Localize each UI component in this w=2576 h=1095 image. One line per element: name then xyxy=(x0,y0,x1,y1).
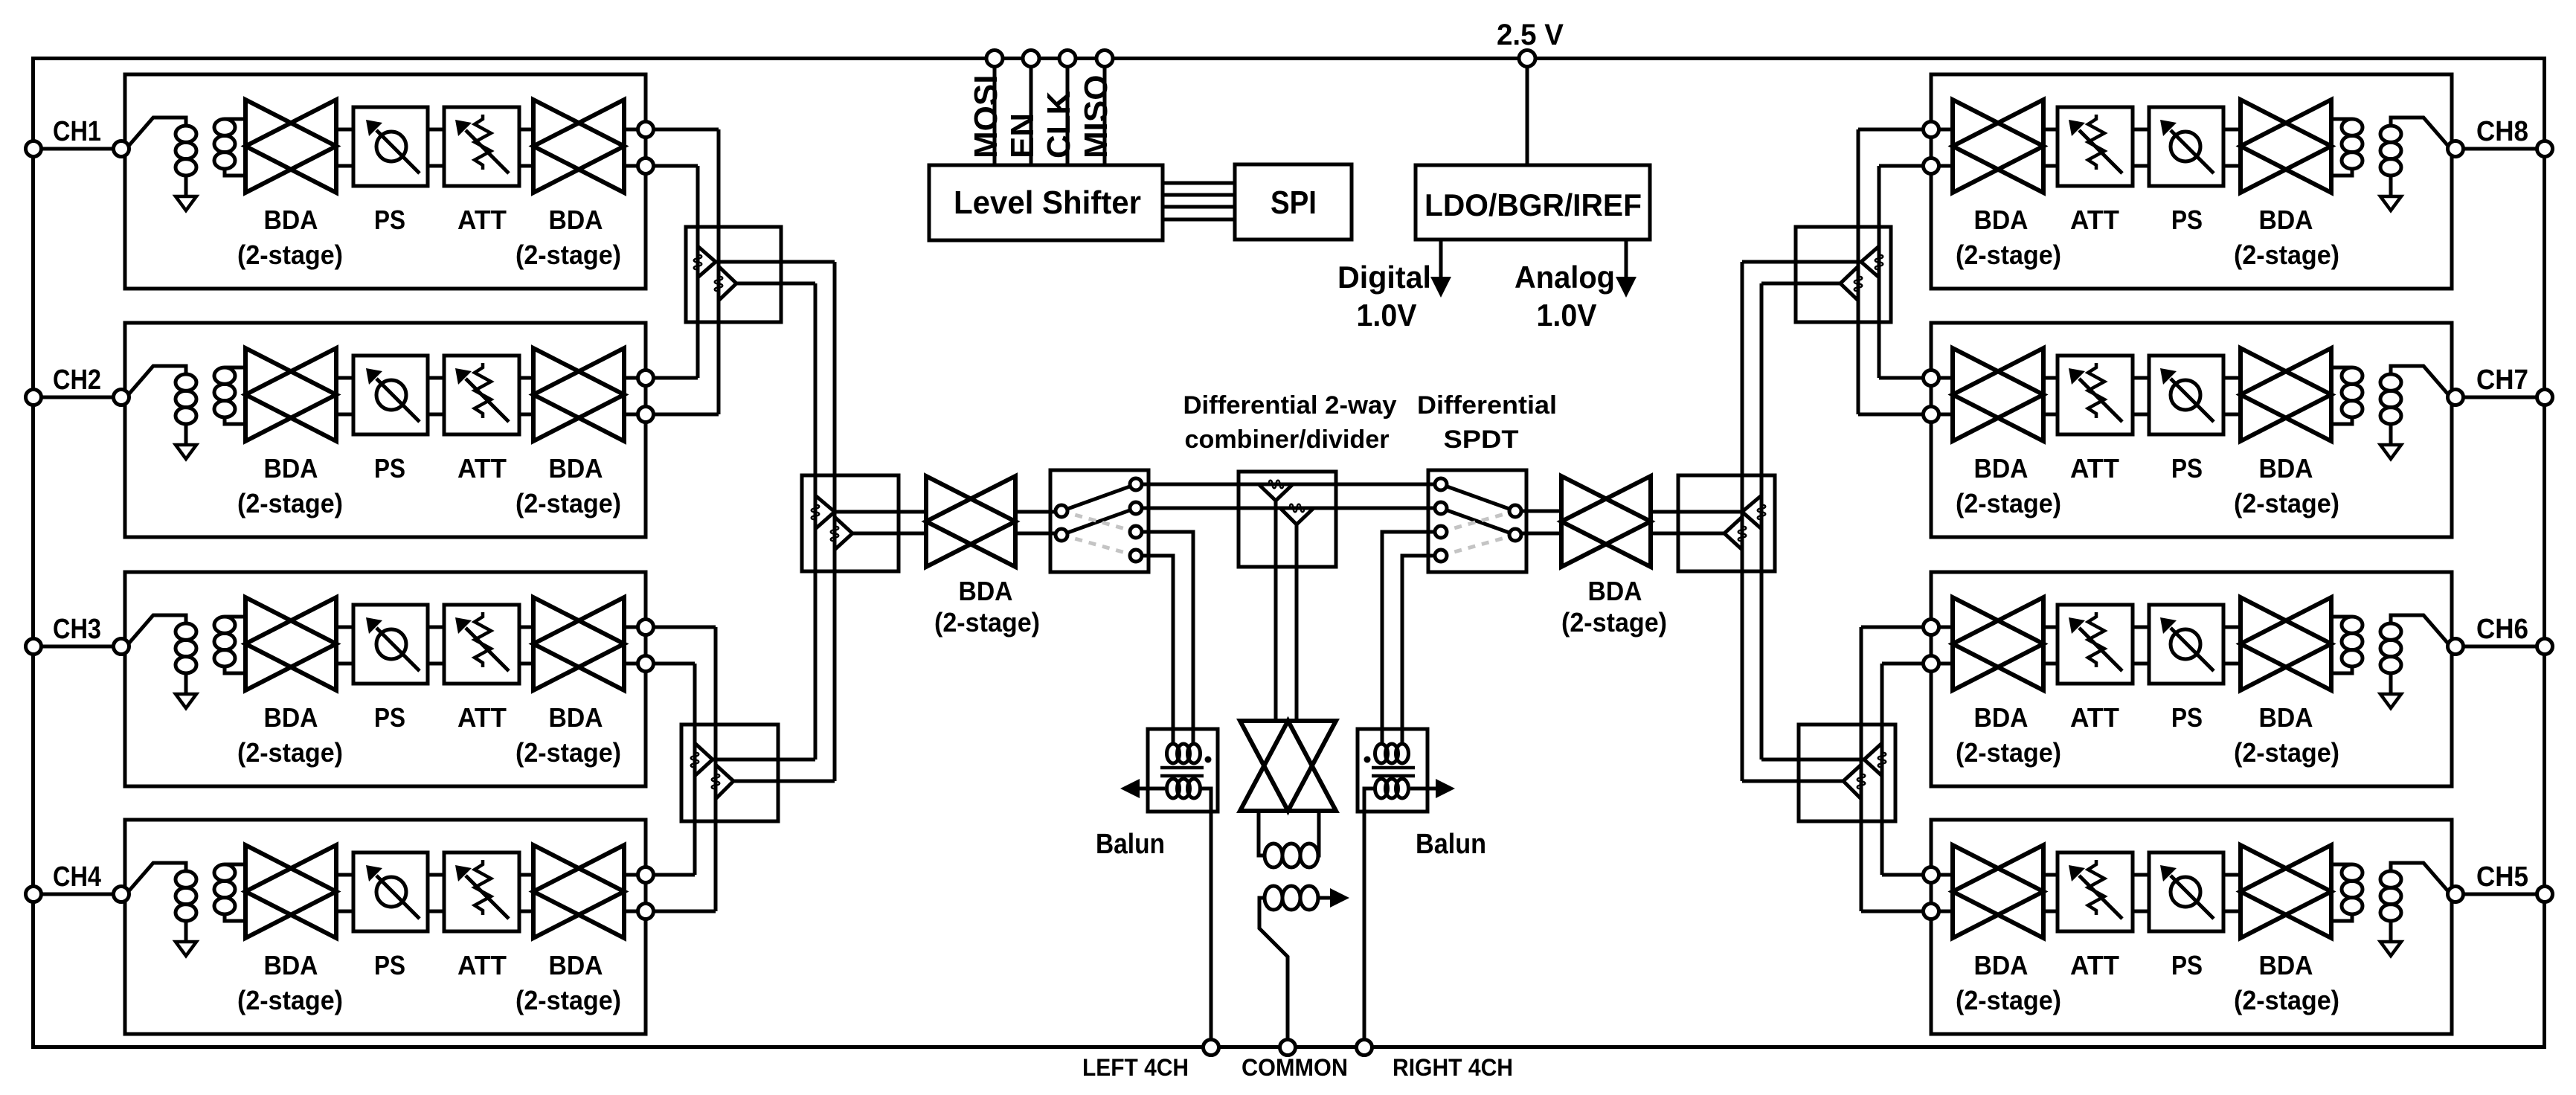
left SPDT pole nodes xyxy=(1056,505,1067,517)
CH5 differential output nodes xyxy=(1924,867,1939,883)
wire CH4 inductor to ground xyxy=(184,921,188,942)
CH3 input port node xyxy=(114,639,129,655)
CH4 differential output nodes xyxy=(638,867,654,883)
CH3 differential output nodes xyxy=(638,620,654,635)
svg-text:CH4: CH4 xyxy=(53,861,101,893)
CH2 differential output nodes xyxy=(638,370,654,386)
CH6/CH5 combiner amp triangle 1 xyxy=(1864,743,1882,776)
wire left BDA to SPDT xyxy=(1015,510,1061,514)
wire BDA1-PS CH6 xyxy=(2223,626,2241,629)
wire ATT-BDA2 CH8 xyxy=(2043,128,2058,132)
right bus vertical net A xyxy=(1760,283,1764,760)
svg-text:BDA: BDA xyxy=(549,453,603,484)
pin node MOSI xyxy=(986,51,1003,67)
svg-text:CH1: CH1 xyxy=(53,116,101,147)
combiner vertical net v4 CH3/CH4 xyxy=(714,627,718,911)
wire CH4 out+ to combiner xyxy=(654,873,695,877)
CH6 differential output nodes xyxy=(1924,620,1939,635)
channel CH3 block xyxy=(125,572,646,786)
BDA 2-stage amplifier 1 CH4 xyxy=(245,845,336,938)
wire PS-ATT CH5 xyxy=(2133,873,2149,877)
wire CH2 out+ to combiner xyxy=(654,376,698,380)
channel CH2 block xyxy=(125,323,646,537)
svg-text:(2-stage): (2-stage) xyxy=(2234,737,2339,768)
svg-text:BDA: BDA xyxy=(959,576,1013,606)
Level Shifter block xyxy=(929,165,1163,240)
svg-text:BDA: BDA xyxy=(2259,205,2313,235)
CH1 input port node xyxy=(114,141,129,157)
right bus vertical net B xyxy=(1741,262,1744,781)
wire ATT-BDA2 CH4 xyxy=(519,873,533,877)
svg-text:(2-stage): (2-stage) xyxy=(1956,488,2061,518)
right 4ch combiner amp triangle 1 xyxy=(1742,495,1761,529)
wire PS-ATT CH2 xyxy=(428,376,444,380)
svg-text:PS: PS xyxy=(374,453,405,484)
wire divider to common BDA 1 xyxy=(1274,501,1278,722)
matching transformer coil CH8 xyxy=(2331,118,2352,121)
svg-text:CH3: CH3 xyxy=(53,614,101,645)
svg-text:PS: PS xyxy=(2171,205,2203,235)
svg-text:(2-stage): (2-stage) xyxy=(515,488,621,518)
wire MISO pin stem xyxy=(1103,66,1107,165)
svg-text:PS: PS xyxy=(374,205,405,235)
left 4ch combiner amp triangle 1 xyxy=(815,495,835,529)
channel CH6 block xyxy=(1931,572,2452,786)
right 4ch combiner box xyxy=(1678,475,1775,571)
svg-text:Balun: Balun xyxy=(1416,829,1486,860)
CH8/CH7 combiner amp triangle 2 xyxy=(1840,266,1858,301)
svg-text:LDO/BGR/IREF: LDO/BGR/IREF xyxy=(1424,187,1642,222)
BDA 2-stage amplifier 2 CH6 xyxy=(1953,597,2043,690)
svg-text:BDA: BDA xyxy=(1974,950,2029,980)
svg-text:Level Shifter: Level Shifter xyxy=(954,184,1141,221)
CH7 input port node xyxy=(2448,390,2464,405)
ground CH5 xyxy=(2380,942,2401,956)
wire PS-ATT CH3 xyxy=(428,626,444,629)
BDA 2-stage amplifier 2 CH2 xyxy=(533,348,624,441)
wire CLK pin stem xyxy=(1066,66,1070,165)
chip pad CH4 xyxy=(26,887,42,902)
CH8/CH7 combiner box xyxy=(1796,227,1891,322)
divider transformer tap 2 xyxy=(1280,508,1314,524)
wire bowtie to transformer right xyxy=(1318,811,1319,855)
right 4ch combiner amp triangle 2 xyxy=(1724,517,1742,550)
RIGHT 4CH pad xyxy=(1357,1040,1372,1056)
wire right SPDT to balun in1 xyxy=(1382,532,1435,745)
wire BDA1-PS CH7 xyxy=(2223,376,2241,380)
left SPDT throw wire 1 xyxy=(1061,484,1136,511)
wire MOSI pin stem xyxy=(993,66,997,165)
left balun polarity dot xyxy=(1205,757,1212,763)
channel CH4 block xyxy=(125,820,646,1034)
ground CH7 xyxy=(2380,445,2401,459)
svg-text:BDA: BDA xyxy=(264,702,318,733)
CH5 input port node xyxy=(2448,887,2464,902)
svg-text:CH8: CH8 xyxy=(2476,116,2528,147)
chip pad CH6 xyxy=(2537,639,2553,655)
svg-text:BDA: BDA xyxy=(2259,702,2313,733)
wire BDA2 outputs CH5 xyxy=(1939,873,1953,877)
svg-text:(2-stage): (2-stage) xyxy=(2234,985,2339,1015)
wire BDA1-PS CH2 xyxy=(336,376,353,380)
svg-text:PS: PS xyxy=(2171,453,2203,484)
wire CH3 out+ to combiner xyxy=(654,626,716,629)
wire SPDT to divider line2 xyxy=(1142,507,1441,510)
combiner vertical net v2 CH1/CH2 xyxy=(717,129,721,414)
wire right SPDT to balun in2 xyxy=(1402,556,1435,745)
svg-text:(2-stage): (2-stage) xyxy=(515,240,621,270)
svg-text:BDA: BDA xyxy=(549,950,603,980)
wire PS-ATT CH4 xyxy=(428,873,444,877)
pin node CLK xyxy=(1059,51,1076,67)
CH3/CH4 combiner box xyxy=(681,725,778,821)
ground CH6 xyxy=(2380,694,2401,708)
left SPDT box xyxy=(1050,470,1149,572)
phase shifter PS CH7 xyxy=(2149,356,2223,434)
left 4ch combiner amp triangle 2 xyxy=(835,517,852,550)
wire CH2 inductor to ground xyxy=(184,424,188,445)
wire CH6 to chip edge xyxy=(2463,645,2537,649)
BDA 2-stage amplifier 1 CH7 xyxy=(2241,348,2331,441)
svg-text:BDA: BDA xyxy=(1974,702,2029,733)
SPI bus wires xyxy=(1163,182,1235,185)
svg-text:(2-stage): (2-stage) xyxy=(515,985,621,1015)
wire CH1 out- to combiner xyxy=(654,164,698,168)
CH1/CH2 combiner box xyxy=(686,227,781,322)
svg-text:SPDT: SPDT xyxy=(1444,426,1519,454)
LDO/BGR/IREF block xyxy=(1416,165,1650,240)
wire ATT-BDA2 CH5 xyxy=(2043,873,2058,877)
CH8/CH7 combiner amp triangle 1 xyxy=(1861,246,1879,277)
wire bowtie to transformer left xyxy=(1259,811,1265,855)
svg-text:ATT: ATT xyxy=(457,702,507,733)
shunt inductor CH5 xyxy=(2380,871,2401,887)
combiner vertical net v1 CH1/CH2 xyxy=(696,166,700,378)
CH2 input port node xyxy=(114,390,129,405)
wire CH4 out- to combiner xyxy=(654,910,716,913)
svg-text:2.5 V: 2.5 V xyxy=(1497,19,1564,51)
CH1 input switch xyxy=(129,118,186,146)
right SPDT pole nodes xyxy=(1509,505,1521,517)
svg-text:BDA: BDA xyxy=(1974,453,2029,484)
attenuator ATT CH1 xyxy=(444,107,519,186)
svg-text:COMMON: COMMON xyxy=(1242,1054,1348,1081)
svg-text:BDA: BDA xyxy=(2259,453,2313,484)
wire SPDT to divider line1 xyxy=(1142,483,1441,487)
wire left SPDT to balun in1 xyxy=(1142,532,1193,745)
BDA 2-stage amplifier 1 CH8 xyxy=(2241,100,2331,193)
left 4ch combiner box xyxy=(802,475,899,571)
svg-text:CH5: CH5 xyxy=(2476,861,2528,893)
BDA 2-stage amplifier 2 CH1 xyxy=(533,100,624,193)
wire CH5 out+ to combiner xyxy=(1882,873,1923,877)
wire CH8 out+ to combiner xyxy=(1858,128,1923,132)
channel CH1 block xyxy=(125,74,646,289)
ground CH2 xyxy=(176,445,196,459)
svg-text:Balun: Balun xyxy=(1096,829,1165,860)
right balun core xyxy=(1372,766,1415,770)
left balun box xyxy=(1148,729,1218,812)
BDA 2-stage amplifier 1 CH3 xyxy=(245,597,336,690)
CH1/CH2 combiner amp triangle 2 xyxy=(719,266,736,301)
CH8 input switch xyxy=(2391,118,2448,146)
wire CH8 to chip edge xyxy=(2463,147,2537,151)
chip pad CH8 xyxy=(2537,141,2553,157)
wire CH6/5 combiner out2 xyxy=(1742,780,1843,783)
svg-text:MISO: MISO xyxy=(1078,75,1114,158)
wire CH3 inductor to ground xyxy=(184,673,188,694)
matching transformer coil CH3 xyxy=(225,615,245,619)
svg-text:LEFT 4CH: LEFT 4CH xyxy=(1082,1054,1189,1081)
combiner vertical net v3 CH6/CH5 xyxy=(1880,664,1884,875)
wire CH3 to chip edge xyxy=(41,645,114,649)
shunt inductor CH8 xyxy=(2380,126,2401,142)
svg-text:PS: PS xyxy=(2171,702,2203,733)
CH6/CH5 combiner amp triangle 2 xyxy=(1843,765,1861,799)
pin node EN xyxy=(1023,51,1039,67)
wire CH5 inductor to ground xyxy=(2389,921,2393,942)
phase shifter PS CH3 xyxy=(353,605,428,684)
svg-text:(2-stage): (2-stage) xyxy=(237,737,343,768)
phase shifter PS CH1 xyxy=(353,107,428,186)
LEFT 4CH pad xyxy=(1204,1040,1219,1056)
svg-text:CH2: CH2 xyxy=(53,365,101,396)
wire right balun to RIGHT 4CH pad xyxy=(1364,789,1375,1039)
shunt inductor CH1 xyxy=(176,126,196,142)
svg-text:ATT: ATT xyxy=(2070,205,2119,235)
SPI block xyxy=(1235,164,1352,240)
svg-text:ATT: ATT xyxy=(2070,453,2119,484)
wire ATT-BDA2 CH6 xyxy=(2043,626,2058,629)
left SPDT dashed throw 2 xyxy=(1061,535,1136,556)
svg-text:ATT: ATT xyxy=(457,453,507,484)
wire CH7 out+ to combiner xyxy=(1879,376,1923,380)
attenuator ATT CH3 xyxy=(444,605,519,684)
CH4 input switch xyxy=(129,863,186,891)
shunt inductor CH2 xyxy=(176,374,196,391)
combiner vertical net v4 CH6/CH5 xyxy=(1860,627,1863,911)
wire left SPDT to balun in2 xyxy=(1142,556,1173,745)
svg-text:combiner/divider: combiner/divider xyxy=(1185,426,1390,454)
CH1/CH2 combiner amp triangle 1 xyxy=(698,246,716,277)
wire BDA2 outputs CH4 xyxy=(624,873,637,877)
CH7 input switch xyxy=(2391,366,2448,394)
wire BDA2 outputs CH1 xyxy=(624,128,637,132)
wire BDA1-PS CH1 xyxy=(336,128,353,132)
svg-text:1.0V: 1.0V xyxy=(1357,298,1417,333)
chip pad CH1 xyxy=(26,141,42,157)
wire CH1 to chip edge xyxy=(41,147,114,151)
wire right SPDT to BDA xyxy=(1521,510,1561,513)
left bus vertical net A xyxy=(814,283,818,760)
pin node MISO xyxy=(1096,51,1113,67)
svg-text:BDA: BDA xyxy=(264,950,318,980)
channel CH7 block xyxy=(1931,323,2452,537)
CH6 input port node xyxy=(2448,639,2464,655)
left balun secondary coil xyxy=(1167,779,1180,798)
wire left balun to LEFT 4CH pad xyxy=(1201,789,1211,1039)
wire ATT-BDA2 CH2 xyxy=(519,376,533,380)
svg-text:Analog: Analog xyxy=(1515,260,1615,295)
svg-text:CH6: CH6 xyxy=(2476,614,2528,645)
svg-text:(2-stage): (2-stage) xyxy=(934,607,1040,638)
BDA 2-stage amplifier 2 CH4 xyxy=(533,845,624,938)
svg-text:CLK: CLK xyxy=(1041,91,1077,158)
channel CH8 block xyxy=(1931,74,2452,289)
svg-text:PS: PS xyxy=(374,702,405,733)
wire left combiner to BDA - xyxy=(852,532,926,536)
wire CH2 to chip edge xyxy=(41,396,114,399)
wire CH3 out- to combiner xyxy=(654,662,695,666)
wire CH6 out+ to combiner xyxy=(1861,626,1923,629)
wire CH8 out- to combiner xyxy=(1879,164,1923,168)
Analog supply arrow xyxy=(1625,240,1628,277)
wire CH1 out+ to combiner xyxy=(654,128,719,132)
svg-text:BDA: BDA xyxy=(264,205,318,235)
svg-text:Differential 2-way: Differential 2-way xyxy=(1183,391,1397,420)
wire PS-ATT CH7 xyxy=(2133,376,2149,380)
attenuator ATT CH8 xyxy=(2058,107,2133,186)
matching transformer coil CH7 xyxy=(2331,366,2352,370)
wire BDA1-PS CH5 xyxy=(2223,873,2241,877)
common transformer secondary coil xyxy=(1265,886,1282,910)
right SPDT throw nodes xyxy=(1435,478,1447,490)
BDA 2-stage amplifier 1 CH2 xyxy=(245,348,336,441)
chip pad CH2 xyxy=(26,390,42,405)
shunt inductor CH7 xyxy=(2380,374,2401,391)
left common BDA 2-stage xyxy=(926,476,1015,567)
CH5 input switch xyxy=(2391,863,2448,891)
CH3 input switch xyxy=(129,615,186,643)
wire CH7 inductor to ground xyxy=(2389,424,2393,445)
phase shifter PS CH2 xyxy=(353,356,428,434)
wire CH6 out- to combiner xyxy=(1882,662,1923,666)
BDA 2-stage amplifier 1 CH5 xyxy=(2241,845,2331,938)
svg-text:SPI: SPI xyxy=(1271,184,1317,221)
left balun primary coil xyxy=(1167,744,1180,763)
ground CH4 xyxy=(176,942,196,956)
svg-text:Digital: Digital xyxy=(1337,260,1431,295)
wire CH5 out- to combiner xyxy=(1861,910,1923,913)
left balun core xyxy=(1160,766,1204,770)
shunt inductor CH6 xyxy=(2380,623,2401,640)
wire right BDA to combiner + xyxy=(1651,510,1742,514)
wire EN pin stem xyxy=(1030,66,1033,165)
right common BDA 2-stage xyxy=(1561,476,1651,567)
wire 2.5V to LDO xyxy=(1526,66,1529,165)
left balun output arrow xyxy=(1125,787,1165,791)
svg-text:(2-stage): (2-stage) xyxy=(2234,488,2339,518)
wire CH8 inductor to ground xyxy=(2389,176,2393,196)
phase shifter PS CH8 xyxy=(2149,107,2223,186)
right balun output arrow xyxy=(1410,787,1451,791)
wire CH4 to chip edge xyxy=(41,893,114,896)
svg-text:(2-stage): (2-stage) xyxy=(237,488,343,518)
COMMON pad xyxy=(1280,1040,1296,1056)
svg-text:(2-stage): (2-stage) xyxy=(1956,240,2061,270)
CH8 differential output nodes xyxy=(1924,122,1939,138)
right SPDT throw wire 1 xyxy=(1441,484,1515,511)
wire ATT-BDA2 CH1 xyxy=(519,128,533,132)
wire CH2 out- to combiner xyxy=(654,413,719,417)
wire ATT-BDA2 CH7 xyxy=(2043,376,2058,380)
ground CH8 xyxy=(2380,196,2401,211)
BDA 2-stage amplifier 2 CH5 xyxy=(1953,845,2043,938)
matching transformer coil CH4 xyxy=(225,863,245,867)
svg-text:(2-stage): (2-stage) xyxy=(1956,737,2061,768)
wire CH1/2 combiner out2 xyxy=(736,282,815,286)
chip pad CH3 xyxy=(26,639,42,655)
svg-text:CH7: CH7 xyxy=(2476,365,2528,396)
right balun primary coil xyxy=(1375,744,1388,763)
wire BDA1-PS CH4 xyxy=(336,873,353,877)
phase shifter PS CH6 xyxy=(2149,605,2223,684)
CH3/CH4 combiner amp triangle 1 xyxy=(695,743,713,776)
svg-text:(2-stage): (2-stage) xyxy=(2234,240,2339,270)
wire BDA1-PS CH8 xyxy=(2223,128,2241,132)
wire CH6/5 combiner out1 xyxy=(1761,758,1864,762)
common secondary output arrow xyxy=(1318,896,1339,900)
left SPDT throw wire 2 xyxy=(1061,508,1136,535)
common BDA vertical bowtie xyxy=(1240,721,1336,811)
wire CH5 to chip edge xyxy=(2463,893,2537,896)
wire PS-ATT CH6 xyxy=(2133,626,2149,629)
svg-text:ATT: ATT xyxy=(2070,950,2119,980)
attenuator ATT CH4 xyxy=(444,852,519,931)
right SPDT box xyxy=(1428,470,1526,572)
svg-text:ATT: ATT xyxy=(2070,702,2119,733)
combiner vertical net v3 CH3/CH4 xyxy=(693,664,697,875)
matching transformer coil CH6 xyxy=(2331,615,2352,619)
channel CH5 block xyxy=(1931,820,2452,1034)
svg-text:(2-stage): (2-stage) xyxy=(1561,607,1667,638)
BDA 2-stage amplifier 1 CH1 xyxy=(245,100,336,193)
matching transformer coil CH1 xyxy=(225,118,245,121)
svg-text:BDA: BDA xyxy=(264,453,318,484)
matching transformer coil CH5 xyxy=(2331,863,2352,867)
wire BDA2 outputs CH6 xyxy=(1939,626,1953,629)
svg-text:MOSI: MOSI xyxy=(968,75,1004,158)
wire CH8/7 combiner out2 xyxy=(1761,282,1840,286)
wire CH3/4 combiner out1 xyxy=(713,758,815,762)
attenuator ATT CH6 xyxy=(2058,605,2133,684)
attenuator ATT CH5 xyxy=(2058,852,2133,931)
CH8 input port node xyxy=(2448,141,2464,157)
differential 2-way combiner/divider box xyxy=(1239,472,1336,567)
attenuator ATT CH7 xyxy=(2058,356,2133,434)
BDA 2-stage amplifier 2 CH7 xyxy=(1953,348,2043,441)
svg-text:BDA: BDA xyxy=(2259,950,2313,980)
BDA 2-stage amplifier 2 CH3 xyxy=(533,597,624,690)
svg-text:ATT: ATT xyxy=(457,205,507,235)
svg-text:Differential: Differential xyxy=(1417,391,1557,420)
ground CH3 xyxy=(176,694,196,708)
right SPDT dashed throw 1 xyxy=(1441,511,1515,532)
Digital supply arrow xyxy=(1439,240,1443,277)
right SPDT dashed throw 2 xyxy=(1441,535,1515,556)
right balun box xyxy=(1358,729,1427,812)
svg-text:RIGHT 4CH: RIGHT 4CH xyxy=(1393,1054,1513,1081)
wire CH3/4 combiner out2 xyxy=(733,780,835,783)
svg-text:BDA: BDA xyxy=(1974,205,2029,235)
svg-text:EN: EN xyxy=(1004,113,1041,158)
right balun polarity dot xyxy=(1364,757,1371,763)
wire ATT-BDA2 CH3 xyxy=(519,626,533,629)
svg-text:BDA: BDA xyxy=(1588,576,1642,606)
wire divider to common BDA 2 xyxy=(1295,524,1299,722)
svg-text:PS: PS xyxy=(2171,950,2203,980)
wire PS-ATT CH1 xyxy=(428,128,444,132)
